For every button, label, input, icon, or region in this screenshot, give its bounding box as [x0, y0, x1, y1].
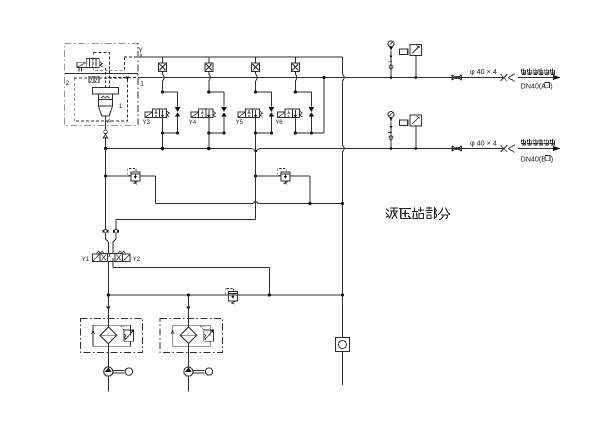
svg-text:φ 40 × 4: φ 40 × 4 — [470, 139, 497, 148]
wire check leg 1 lower — [177, 117, 179, 133]
wire branch 4 extension — [311, 132, 324, 134]
solenoid valve Y3 solenoid box — [145, 112, 153, 118]
wire branch 4 split horizontal — [295, 91, 311, 93]
coupler fitting riser 2 — [186, 307, 190, 310]
node branch 3 split — [254, 90, 257, 93]
node branch 3 bottom left — [254, 131, 257, 134]
wire branch 3 split horizontal — [256, 91, 272, 93]
hop of drain spine over bus B — [343, 145, 345, 152]
cartridge valve seat trapezoid — [98, 106, 112, 116]
shaft pump 1 — [113, 369, 125, 371]
wire branch 2 from drain line — [208, 57, 210, 63]
return filter F3 — [336, 338, 350, 352]
pump P2 — [184, 367, 193, 376]
svg-text:Y3: Y3 — [143, 120, 151, 126]
wire branch 2 split horizontal — [209, 91, 224, 93]
dashed pilot drain link — [109, 69, 124, 71]
wire check leg 1 upper — [177, 92, 179, 107]
leader tick for Y — [140, 54, 142, 58]
tag box PG2 — [400, 120, 408, 126]
motor M1 — [125, 368, 132, 375]
wire branch 4 to split — [294, 81, 296, 92]
pressure gauge PG1 with isolator — [388, 41, 394, 47]
wire tank branch down — [115, 220, 117, 229]
wire drain spine lower — [342, 152, 344, 338]
break symbol arrow bus A — [508, 74, 515, 78]
wire check leg 3 upper — [270, 92, 272, 107]
cartridge valve body — [98, 94, 112, 106]
hop branch 3 over bus A — [256, 74, 258, 81]
pump P1 — [104, 367, 113, 376]
node branch 1 on bus B — [161, 147, 165, 151]
wire branch 4 from drain line — [294, 57, 296, 63]
hop branch 4 over bus A — [295, 74, 297, 81]
node PG2 on bus B — [390, 147, 393, 150]
solenoid valve Y4 flow arrow — [208, 110, 210, 117]
hop bus B under tank spine — [252, 149, 259, 151]
tag box PG1 — [400, 49, 408, 55]
node branch 1 bottom right — [176, 131, 179, 134]
wire filter 2 to pump — [187, 344, 189, 368]
solenoid valve Y5 blocked port marks — [248, 110, 250, 113]
solenoid valve Y3 blocked port marks — [155, 110, 157, 113]
wire left spine tap to coupler — [105, 176, 107, 229]
dashed pilot axis — [105, 68, 107, 88]
node branch 4 bottom right — [310, 131, 313, 134]
pipe label underline arrow bus A — [518, 77, 556, 79]
drain stub below unit — [105, 116, 107, 129]
cartridge valve spring — [102, 96, 110, 98]
break symbol X bus A — [501, 74, 508, 81]
solenoid valve Y6 spring — [300, 111, 303, 117]
orifice/test point TP2 — [205, 63, 213, 72]
solenoid valve Y5 solenoid box — [238, 112, 246, 118]
node relief RV1 inlet tap — [104, 174, 107, 177]
svg-text:Y1: Y1 — [82, 257, 90, 263]
wire branch 2 below orifice — [208, 71, 210, 74]
wire branch 3 bottom horizontal — [256, 132, 272, 134]
wire check leg 2 lower — [223, 117, 225, 133]
node PT2 on bus B — [415, 147, 418, 150]
pipe label underline arrow bus B — [518, 148, 556, 150]
solenoid valve Y5 spring — [260, 111, 263, 117]
node branch 4 split — [294, 90, 297, 93]
svg-text:Y5: Y5 — [236, 120, 244, 126]
solenoid valve Y3 flow arrow — [162, 110, 164, 117]
wire relief RV2 inlet — [256, 175, 281, 177]
hop of drain spine over bus A — [343, 74, 345, 81]
wire DV1 port A down — [107, 262, 109, 296]
svg-text:): ) — [551, 155, 553, 164]
dashed pilot riser right of pilot rect — [108, 70, 110, 87]
wire riser 1 upper — [107, 295, 109, 304]
coupler fitting K2 — [113, 229, 115, 233]
pilot solenoid valve V0 solenoid box — [77, 62, 86, 67]
filter F1 bypass valve — [124, 330, 134, 341]
wire pump 2 suction — [187, 376, 189, 391]
wire relief drain header — [156, 202, 254, 204]
node pump header portB — [268, 293, 271, 296]
wire tank branch horizontal — [116, 219, 256, 221]
node branch 2 bottom left — [207, 131, 210, 134]
wire left spine bus B to tap — [105, 149, 107, 177]
wire spine above filter — [342, 295, 344, 338]
node pump header riser2 — [187, 293, 190, 296]
wire relief RV1 inlet — [106, 175, 131, 177]
inner dashed box — [74, 78, 127, 121]
wire branch 3 below orifice — [255, 71, 257, 74]
wire bus B left part — [106, 148, 253, 150]
solenoid valve Y3 position squares — [152, 109, 166, 118]
pilot valve V0 tails — [78, 68, 80, 72]
wire branch 4 bottom horizontal — [295, 132, 311, 134]
directional valve DV1 centre marks — [108, 254, 110, 256]
filter F1 bypass arrow — [92, 330, 95, 334]
node bus B left corner — [104, 147, 107, 150]
wire PT1 to bus A — [415, 56, 417, 78]
dashed link to main line — [108, 76, 138, 78]
node pump header spine — [341, 293, 344, 296]
directional valve DV1 position squares — [100, 254, 123, 262]
wire bus B right part — [259, 148, 503, 150]
check valve CV3 — [269, 107, 275, 112]
node branch 2 bottom right — [222, 131, 225, 134]
directional valve DV1 left solenoid — [92, 254, 100, 262]
wire valve leg 1 lower — [162, 118, 164, 133]
orifice/test point TP4 — [291, 63, 299, 72]
solenoid valve Y5 position squares — [246, 109, 260, 118]
wire left spine below coupler — [105, 233, 107, 239]
node relief drain on spine — [341, 202, 344, 205]
wire spine below filter — [342, 352, 344, 386]
pressure transmitter PT2 — [410, 115, 421, 126]
motor M2 — [205, 368, 212, 375]
wire valve leg 4 lower — [294, 118, 296, 133]
wire unit to lower spine — [105, 137, 107, 148]
node branch 4 on bus A — [322, 76, 325, 79]
wire branch 3 drop to bus B — [255, 133, 257, 149]
svg-text:φ 40 × 4: φ 40 × 4 — [470, 67, 497, 76]
wire riser 2 upper — [187, 295, 189, 304]
svg-text:DN40(A: DN40(A — [521, 82, 547, 91]
wire branch 4 riser to bus A — [323, 78, 325, 134]
wire branch 3 from drain line — [255, 57, 257, 63]
wire relief RV1 outlet — [140, 175, 156, 177]
node branch 4 bottom left — [294, 131, 297, 134]
wire bus A — [138, 77, 503, 79]
quick coupling QC1 on bus A — [451, 75, 453, 80]
label connect-rod-side text — [521, 69, 526, 71]
wire check leg 4 upper — [310, 92, 312, 107]
wire branch 2 to split — [208, 81, 210, 92]
node PG1 on bus A — [390, 76, 393, 79]
filter F1 bypass loop — [93, 324, 131, 326]
wire drain spine mid — [342, 81, 344, 145]
wire riser 1 into tank box — [107, 304, 109, 328]
filter unit box 1 — [80, 318, 142, 352]
caption hydraulic station part — [386, 208, 398, 219]
directional valve DV1 left arrows — [101, 254, 106, 260]
orifice/test point TP3 — [252, 63, 260, 72]
node relief RV2 inlet tap — [254, 174, 257, 177]
wire branch 2 bottom horizontal — [209, 132, 224, 134]
wire valve leg 3 lower — [255, 118, 257, 133]
check valve CV4 — [309, 107, 315, 112]
wire branch 2 drop to bus B — [208, 133, 210, 149]
wire check leg 3 lower — [270, 117, 272, 133]
filter F1 diamond — [100, 327, 117, 344]
node relief drain at RV2 — [308, 202, 311, 205]
pressure transmitter PT1 — [410, 44, 421, 55]
svg-text:Y6: Y6 — [275, 120, 283, 126]
hop branch 2 over bus A — [209, 74, 211, 81]
enclosure dash-dot box of pilot relief unit U1 — [65, 43, 138, 125]
solenoid valve Y4 solenoid box — [191, 112, 199, 118]
solenoid valve Y6 blocked port marks — [288, 110, 290, 113]
check valve CV2 — [221, 107, 227, 112]
node branch 1 bottom left — [161, 131, 164, 134]
node branch 2 on bus B — [207, 147, 211, 151]
svg-text:1: 1 — [140, 81, 144, 88]
wire tank branch from bus B — [255, 149, 257, 177]
wire branch 1 bottom horizontal — [163, 132, 178, 134]
wire drain spine right vertical top — [342, 57, 344, 74]
wire branch 1 below orifice — [162, 71, 164, 74]
wire pump 1 suction — [107, 376, 109, 391]
svg-text:A: A — [107, 119, 111, 125]
wire valve leg 2 lower — [208, 118, 210, 133]
pressure gauge PG2 with isolator — [388, 112, 394, 118]
dashed lead of Y line — [124, 56, 141, 58]
directional valve DV1 right arrows — [116, 254, 121, 260]
wire PT2 to bus B — [415, 126, 417, 148]
node PT1 on bus A — [415, 76, 418, 79]
wire branch 1 from drain line — [162, 57, 164, 63]
pilot arrow on inner box corner — [126, 76, 130, 80]
orifice block O0 — [89, 76, 99, 83]
orifice/test point TP1 — [159, 63, 167, 72]
shaft pump 2 — [193, 369, 205, 371]
filter F2 diamond — [180, 327, 197, 344]
relief valve RV2 — [281, 172, 290, 181]
coupler fitting riser 1 — [106, 307, 110, 310]
node branch 1 split — [161, 90, 164, 93]
svg-text:DN40(B: DN40(B — [521, 155, 547, 164]
wire branch 1 split horizontal — [163, 91, 178, 93]
hop branch 1 over bus A — [163, 74, 165, 81]
svg-text:): ) — [550, 82, 552, 91]
cartridge valve top flange — [93, 88, 119, 95]
directional valve DV1 right solenoid — [123, 254, 131, 262]
svg-text:Y4: Y4 — [189, 120, 197, 126]
wire riser 2 into tank box — [187, 304, 189, 328]
break symbol X bus B — [501, 145, 508, 152]
internal line across unit — [65, 73, 138, 75]
solenoid valve Y3 spring — [167, 111, 170, 117]
solenoid valve Y4 blocked port marks — [201, 110, 203, 113]
wire filter 1 to pump — [107, 344, 109, 368]
pilot section dashed box — [93, 53, 109, 71]
relief valve RV1 — [131, 172, 140, 181]
check valve CV1 — [175, 107, 181, 112]
svg-text:Y: Y — [138, 48, 143, 55]
wire pump header — [108, 294, 342, 296]
node pump header left — [107, 293, 110, 296]
wire branch 1 drop to bus B — [162, 133, 164, 149]
wire drain line Y horizontal — [141, 56, 343, 58]
solenoid valve Y6 solenoid box — [278, 112, 286, 118]
wire check leg 2 upper — [223, 92, 225, 107]
wire branch 4 below orifice — [294, 71, 296, 74]
solenoid valve Y6 position squares — [285, 109, 299, 118]
filter unit box 2 — [160, 318, 222, 352]
wire tank leg below coupler — [115, 233, 117, 239]
solenoid valve Y6 flow arrow — [294, 110, 296, 117]
coupler fitting below unit — [104, 130, 108, 134]
filter F2 bypass loop — [173, 324, 211, 326]
svg-text:Y2: Y2 — [133, 257, 141, 263]
solenoid valve Y4 spring — [213, 111, 216, 117]
label connect-piston-side text — [521, 140, 526, 142]
filter F2 bypass arrow — [171, 330, 174, 334]
wire DV1 port B down-right — [112, 262, 114, 268]
wire branch 3 to split — [255, 81, 257, 92]
filter F2 bypass valve — [204, 330, 214, 341]
break symbol arrow bus B — [508, 145, 515, 149]
coupler fitting K1 — [103, 229, 105, 233]
solenoid valve Y4 position squares — [199, 109, 213, 118]
wire branch 1 to split — [162, 81, 164, 92]
relief valve RV3 on header — [228, 292, 237, 301]
node branch 2 split — [207, 90, 210, 93]
wire relief RV2 outlet — [290, 175, 310, 177]
solenoid valve Y5 flow arrow — [255, 110, 257, 117]
directional valve DV1 springs — [97, 251, 105, 253]
quick coupling QC2 on bus B — [451, 146, 453, 151]
pilot solenoid valve V0 position squares — [86, 58, 99, 67]
node branch 3 bottom right — [270, 131, 273, 134]
pilot solenoid valve V0 spring — [100, 62, 102, 67]
wire check leg 4 lower — [310, 117, 312, 133]
